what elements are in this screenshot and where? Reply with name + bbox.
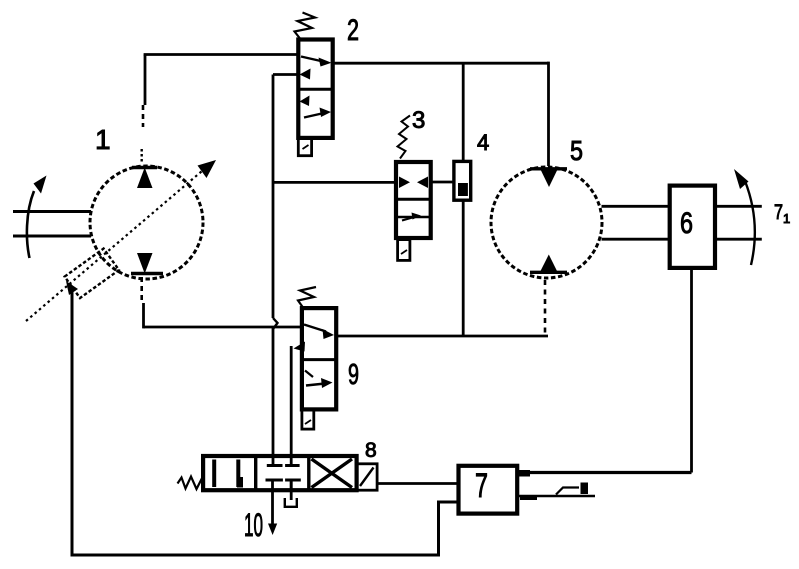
motor M5 bottom dashed drain [544, 280, 547, 335]
wire pump bottom down [142, 303, 145, 328]
svg-text:3: 3 [412, 107, 425, 134]
pump P1 top triangle [137, 168, 153, 189]
valve V2 bottom cell left arrow [300, 96, 310, 107]
svg-text:1: 1 [95, 124, 111, 155]
valve V8 right solenoid box [357, 464, 378, 490]
wire valve3 to check4 [431, 181, 454, 184]
pump P1 top dashed pilot segment [142, 105, 145, 127]
valve V2 top cell arrow [301, 57, 323, 62]
pump P1 circle [90, 166, 203, 279]
wire valve9 out to motor bottom [336, 335, 548, 338]
valve V3 divider [396, 198, 431, 201]
pump servo corner blob [66, 281, 78, 295]
valve V8 divider right [307, 456, 310, 490]
valve V9 pilot box [302, 409, 314, 429]
motor M5 bottom triangle [530, 271, 567, 274]
pump P1 bottom port bar [131, 272, 163, 275]
pump P1 shaft line upper [13, 210, 91, 213]
pump servo actuator tilted box [65, 249, 119, 298]
valve V9 spring [298, 287, 316, 308]
signal step symbol [556, 488, 579, 495]
valve V3 lower cell arrow [402, 217, 416, 221]
wire servo drain to bottom bus [72, 289, 459, 555]
wire solenoid to box7 [377, 482, 458, 485]
valve V9 divider [302, 358, 336, 361]
wire pump bottom to valve9 [144, 326, 302, 329]
svg-text:10: 10 [244, 507, 263, 543]
tank symbol [290, 480, 293, 500]
pump P1 top dotted stub [140, 149, 142, 164]
wire long vertical bus valve2 to valve8 [272, 75, 275, 319]
valve V2 divider [298, 88, 332, 91]
valve V9 bottom cell marks [305, 371, 313, 378]
svg-text:8: 8 [365, 439, 377, 462]
wire vertical bus to valve3 [273, 181, 396, 184]
valve V2 pilot box [298, 138, 311, 156]
svg-text:5: 5 [570, 135, 583, 166]
pump P1 top port bar [132, 166, 157, 169]
valve V2 bottom cell arrow [304, 113, 324, 118]
output rotation arrow arc [745, 181, 755, 265]
valve V3 opposing arrows [399, 177, 410, 189]
motor M5 top triangle [530, 167, 567, 170]
valve V8 body [203, 456, 357, 490]
output rotation arrowhead [734, 169, 749, 189]
valve V8 divider left [254, 456, 257, 490]
valve V8 left cell bars [212, 460, 216, 488]
svg-text:4: 4 [477, 130, 489, 155]
wire branch down through check4 [462, 63, 465, 161]
box7 signal input line [517, 495, 595, 498]
valve V9 top cell arrow [304, 325, 326, 332]
pump P1 bottom dashed stub [140, 277, 143, 303]
check valve 4 box [454, 161, 471, 200]
svg-text:2: 2 [347, 14, 359, 47]
valve V2 spring [295, 13, 316, 39]
wire valve9 lower port to valve8 [290, 346, 293, 466]
gearbox 6 [670, 186, 715, 268]
valve V2 body [298, 40, 332, 138]
motor M5 circle [491, 167, 602, 278]
box7 right top thick stub [517, 470, 530, 477]
controller box 7 [459, 466, 518, 514]
pump input rotation arrowhead [34, 176, 47, 194]
wire pump top to valve2 riser [144, 55, 147, 106]
valve V9 body [302, 308, 336, 409]
valve V8 centre cell T stops [267, 464, 283, 467]
svg-text:7: 7 [475, 467, 488, 505]
svg-text:6: 6 [680, 207, 693, 240]
valve V3 body [396, 162, 431, 238]
wire valve2 out to motor top [333, 62, 549, 65]
motor M5 shaft lines [602, 205, 670, 208]
pump input rotation arrow arc [27, 191, 34, 258]
wire box7 to gearbox bottom [517, 471, 691, 474]
svg-text:1: 1 [783, 211, 790, 226]
pump variable displacement dotted arrow shaft [26, 171, 202, 321]
wire pump top to valve2 horizontal [144, 53, 299, 56]
valve V8 drain line 10 [271, 480, 274, 527]
svg-text:7: 7 [774, 201, 783, 224]
pump P1 shaft line lower [13, 235, 91, 238]
valve V3 spring leader [398, 116, 411, 159]
pump variable displacement arrowhead [198, 160, 217, 178]
valve V8 left spring [178, 476, 204, 489]
svg-text:9: 9 [348, 359, 359, 391]
valve V8 right cell X arrows [312, 459, 353, 488]
gearbox output shaft lines [715, 205, 762, 208]
valve V2 top cell left port arrow [300, 69, 311, 80]
valve V9 bottom-left port arrow [294, 342, 306, 352]
pump P1 bottom triangle [137, 253, 153, 274]
valve V3 pilot box [398, 240, 410, 261]
